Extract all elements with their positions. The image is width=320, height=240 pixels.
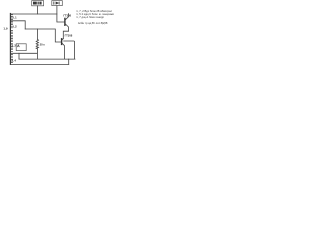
transistor Q1 base bar	[64, 18, 66, 25]
upper rail	[19, 58, 75, 60]
wire drop to rail	[18, 53, 20, 59]
svg-text:L4: L4	[12, 59, 16, 63]
lower rail	[10, 63, 68, 65]
transformer T1 winding line	[9, 14, 11, 65]
svg-text:L3: L3	[12, 44, 16, 48]
K1 glyph	[17, 45, 19, 47]
svg-text:ГТ308: ГТ308	[63, 14, 71, 18]
wire transformer to resistor bottom (L3/L4 tap)	[11, 52, 37, 54]
resistor R1 leads	[36, 29, 38, 59]
source box B2	[52, 1, 63, 6]
svg-text:L1: L1	[13, 16, 17, 20]
wire Q1 emitter to Q2 collector	[63, 31, 68, 38]
transformer winding ticks	[11, 15, 13, 63]
resistor R1 zigzag	[36, 39, 38, 49]
box B1 label glyph blobs	[33, 2, 42, 5]
wire tap L1/L2 junction	[11, 21, 25, 29]
wire from B1 down	[37, 6, 39, 14]
svg-text:1, 7 дщ+1 боке генерр: 1, 7 дщ+1 боке генерр	[76, 15, 104, 19]
rail link	[68, 59, 70, 64]
svg-text:Асйн тр ад Вт олл Вд58: Асйн тр ад Вт олл Вд58	[78, 21, 108, 25]
wire top tap	[10, 13, 57, 15]
svg-text:ГТ308: ГТ308	[65, 33, 73, 37]
transistor Q2 base bar	[61, 39, 63, 45]
svg-text:20 к: 20 к	[40, 42, 46, 46]
source box B1	[32, 1, 44, 6]
transistor Q2 collector	[62, 39, 63, 40]
box B2 label: 1 + triangle	[53, 2, 59, 5]
transistor Q1 collector	[65, 14, 68, 20]
capacitor branch wire	[64, 41, 75, 59]
coupling box K1	[16, 44, 26, 51]
svg-text:1,9: 1,9	[3, 27, 8, 31]
transistor Q1 emitter	[65, 24, 68, 31]
transistor Q2 emitter	[62, 43, 64, 59]
wire L2 bottom to Q2 base	[25, 29, 61, 42]
svg-text:L2: L2	[13, 25, 17, 29]
wire from B2 down to Q1 base	[57, 6, 65, 22]
